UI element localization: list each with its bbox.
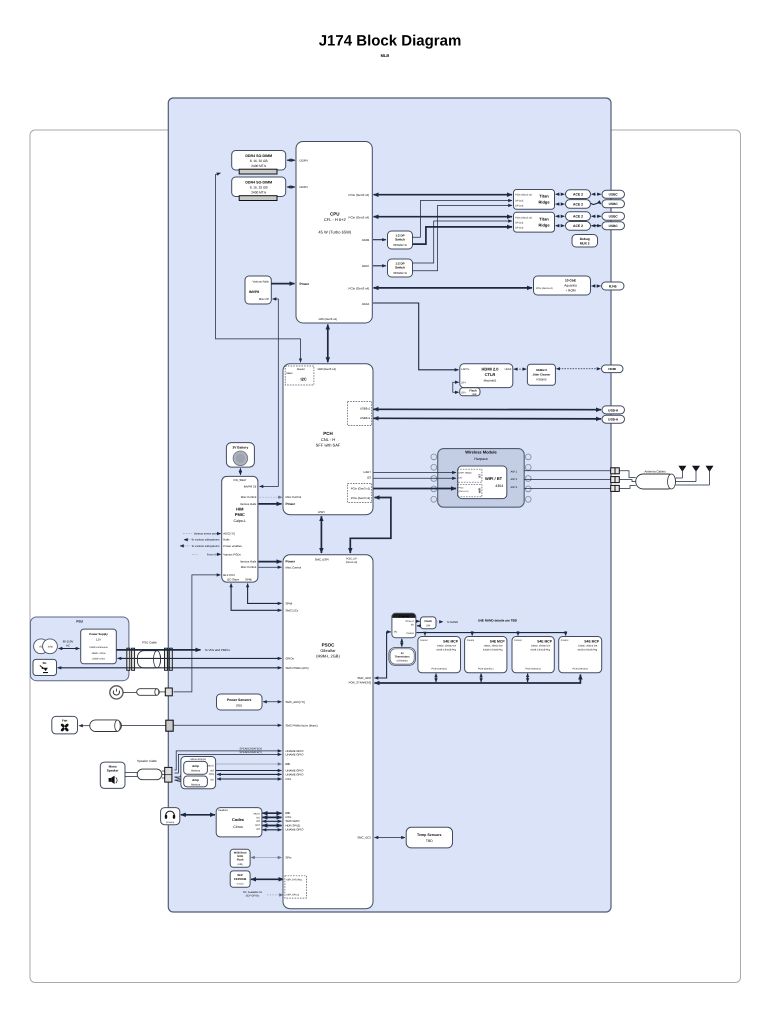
fan assembly xyxy=(52,716,173,734)
usb-c redriver ACE 2 #1 xyxy=(566,190,591,199)
svg-text:Harpace: Harpace xyxy=(474,457,488,461)
wire connector2 to cable xyxy=(619,480,635,482)
wire PCIe CPU to Titan Ridge 1 xyxy=(374,194,513,196)
svg-text:(3.5mm): (3.5mm) xyxy=(166,821,174,824)
usb-c redriver ACE 2 #2 xyxy=(566,200,591,209)
usb-c redriver ACE 2 #4 xyxy=(566,222,591,231)
usb-c port #3 xyxy=(602,212,625,220)
svg-text:DDR4 SO-DIMM: DDR4 SO-DIMM xyxy=(245,181,272,185)
wire ACE2#3 to USBC#3 xyxy=(592,215,602,217)
svg-text:S4E NAND details are TBD: S4E NAND details are TBD xyxy=(478,618,518,622)
power sensors xyxy=(217,694,263,710)
svg-text:CFL - H 6+2: CFL - H 6+2 xyxy=(324,217,347,222)
svg-text:8, 16, 32 GB: 8, 16, 32 GB xyxy=(250,159,268,163)
amplifier bank xyxy=(181,757,216,789)
wire PGDs from VRs xyxy=(192,553,198,555)
svg-text:UART 4Mbps: UART 4Mbps xyxy=(459,471,473,474)
svg-text:DP (x4): DP (x4) xyxy=(515,222,523,225)
PCIe bus PSOC to NANDs xyxy=(375,675,581,684)
thunderbolt controller Titan Ridge 2 xyxy=(514,212,555,232)
speaker cable xyxy=(125,759,172,782)
svg-text:CPU: CPU xyxy=(330,212,340,217)
svg-text:USBC: USBC xyxy=(609,193,619,197)
svg-text:Various sense points: Various sense points xyxy=(194,532,220,536)
svg-text:10 GbE: 10 GbE xyxy=(565,278,576,282)
svg-text:I2Cx: I2Cx xyxy=(286,777,292,781)
wire PMIC I2C-slave to PSOC xyxy=(231,584,281,611)
wire connector3 to cable xyxy=(619,486,635,489)
svg-text:I2C: I2C xyxy=(210,778,214,781)
svg-text:IMVP8: IMVP8 xyxy=(249,290,259,294)
wire switch1 DP out to Titan Ridge 2 (thick) xyxy=(413,227,513,244)
NAND S4E MCP 3 xyxy=(512,637,554,673)
svg-text:Fan: Fan xyxy=(62,718,68,722)
svg-text:128Gb, 256Gb Die: 128Gb, 256Gb Die xyxy=(578,645,598,648)
svg-text:Speaker Cable: Speaker Cable xyxy=(137,759,157,763)
svg-text:inlet: inlet xyxy=(48,645,53,648)
svg-text:Wireless Module: Wireless Module xyxy=(465,450,497,455)
wire switch2 DP out to Titan Ridge 2 xyxy=(413,221,513,263)
svg-text:BLFTCtrl: BLFTCtrl xyxy=(223,573,235,577)
svg-text:PDN: PDN xyxy=(209,773,214,776)
wire UART PCH to BT xyxy=(374,472,457,474)
svg-text:Slave: Slave xyxy=(286,372,293,375)
svg-text:PSOC: PSOC xyxy=(322,643,336,648)
svg-text:PCIe (Gen3 x4): PCIe (Gen3 x4) xyxy=(515,194,532,197)
control tap S4E 3 xyxy=(517,631,519,633)
svg-text:Various Rails: Various Rails xyxy=(253,280,270,284)
PCIe tap NAND1 xyxy=(435,674,437,683)
svg-text:To various subsystems: To various subsystems xyxy=(191,544,220,548)
svg-text:PS8409: PS8409 xyxy=(536,378,546,382)
svg-text:+ ROM: + ROM xyxy=(565,288,576,292)
wire NC dotted to SEP_SPI xyxy=(267,894,283,896)
wire SIL to PSOC xyxy=(58,667,282,669)
svg-text:I2S: I2S xyxy=(367,475,371,479)
wire NOR flash SPI to PSOC xyxy=(251,857,282,859)
svg-text:SMC PWMxTachx (4fans): SMC PWMxTachx (4fans) xyxy=(286,723,318,727)
svg-text:SFF with SAF: SFF with SAF xyxy=(316,442,341,447)
svg-text:SPI: SPI xyxy=(461,392,465,395)
svg-text:ESPI: ESPI xyxy=(318,510,325,514)
svg-text:SPMI: SPMI xyxy=(286,601,293,605)
power supply unit xyxy=(81,629,117,664)
svg-text:WIFI / BT: WIFI / BT xyxy=(485,476,503,481)
svg-text:Antenna Cables: Antenna Cables xyxy=(644,469,666,473)
PCH PCIe dashed box xyxy=(348,484,372,503)
svg-text:45 W (Turbo 65W): 45 W (Turbo 65W) xyxy=(318,230,351,235)
svg-text:SPEAKERSAFE(Y): SPEAKERSAFE(Y) xyxy=(240,751,263,754)
wire codec I2S to PSOC xyxy=(263,812,282,814)
svg-text:ADC[7:0]: ADC[7:0] xyxy=(223,532,235,536)
svg-text:SPIs: SPIs xyxy=(286,855,293,859)
thermistors xyxy=(389,648,416,666)
svg-text:Various Rails: Various Rails xyxy=(240,560,257,564)
control bus from Charlie to NANDs xyxy=(417,632,566,634)
svg-text:PCIe (Gen3 x4): PCIe (Gen3 x4) xyxy=(515,216,532,219)
wire DDR4 channel A xyxy=(287,159,295,161)
PCIe tap NAND2 xyxy=(480,674,482,683)
svg-text:Master: Master xyxy=(297,368,305,371)
svg-text:PCIe (Gen3x1): PCIe (Gen3x1) xyxy=(525,668,541,671)
wire PMIC SPMI to PSOC xyxy=(248,584,282,604)
svg-text:MCLK: MCLK xyxy=(208,765,215,768)
wire DDIC CPU to switch2 xyxy=(373,265,386,267)
svg-text:Control: Control xyxy=(561,639,569,642)
svg-text:Misc Control: Misc Control xyxy=(286,495,302,499)
svg-text:PCIe (Gen3 x4): PCIe (Gen3 x4) xyxy=(348,287,369,291)
svg-text:3633AETD: 3633AETD xyxy=(393,271,407,275)
svg-text:Ridge: Ridge xyxy=(538,200,550,205)
svg-text:UNAME GPIO: UNAME GPIO xyxy=(286,752,305,756)
svg-text:INT: INT xyxy=(256,828,260,831)
svg-text:HIM: HIM xyxy=(236,507,244,512)
svg-text:RJ45: RJ45 xyxy=(609,284,617,288)
svg-text:12V: 12V xyxy=(96,638,101,642)
antenna connector 2 xyxy=(611,477,620,483)
NAND S4E MCP 4 xyxy=(559,637,602,673)
svg-text:USB3x1: USB3x1 xyxy=(360,416,371,420)
svg-text:128Gb, 256Gb Die: 128Gb, 256Gb Die xyxy=(483,645,503,648)
USB-A port 1 xyxy=(602,406,625,414)
wire DMI CPU to PCH xyxy=(327,325,329,363)
svg-text:PCIe (Gen3x1): PCIe (Gen3x1) xyxy=(478,668,494,671)
svg-text:SEP_TATUP(x): SEP_TATUP(x) xyxy=(286,878,302,881)
svg-text:PCIe (Gen3 x4): PCIe (Gen3 x4) xyxy=(351,496,370,500)
svg-text:To VRs and PMICs: To VRs and PMICs xyxy=(205,648,231,652)
wire connector1 to cable xyxy=(619,471,635,478)
wire PCIe CPU to Titan Ridge 2 xyxy=(374,216,513,218)
svg-text:SPEAKERSAFE(X): SPEAKERSAFE(X) xyxy=(240,747,263,750)
wire PCIe Gen3x4 PCH to PSOC xyxy=(350,498,391,554)
mono speaker xyxy=(100,762,125,788)
svg-text:ANT2: ANT2 xyxy=(511,478,518,481)
DIMM slot 1 DDR4 SO-DIMM xyxy=(232,151,286,175)
wire DDR4 channel B xyxy=(287,186,295,188)
svg-text:MLB: MLB xyxy=(381,53,390,58)
wire DDIA CPU to HDMI controller xyxy=(373,303,459,370)
svg-text:AC: AC xyxy=(39,645,43,648)
svg-text:Calpe-L: Calpe-L xyxy=(234,519,247,523)
svg-text:64GB 0.5/4GB Pkg: 64GB 0.5/4GB Pkg xyxy=(578,649,598,652)
svg-text:Control: Control xyxy=(467,639,475,642)
audio codec Cirrus xyxy=(216,808,262,837)
wire jitter cleaner to HDMI port xyxy=(556,368,600,370)
wire PMIC misc control to PSOC xyxy=(259,566,282,568)
MLB board (blue) xyxy=(168,98,611,912)
wire 10GbE to RJ45 xyxy=(592,285,601,287)
svg-text:SEP GPIOs: SEP GPIOs xyxy=(246,895,260,898)
svg-text:DDIA: DDIA xyxy=(362,302,369,306)
svg-text:Misc Control: Misc Control xyxy=(241,565,257,569)
svg-text:SMC PWMs (4Ch): SMC PWMs (4Ch) xyxy=(286,666,309,670)
svg-text:S4E MCP: S4E MCP xyxy=(537,640,553,644)
svg-text:CNL - H: CNL - H xyxy=(321,437,335,442)
SIL safety box xyxy=(33,659,57,675)
svg-text:(H9M-L 2GB): (H9M-L 2GB) xyxy=(316,654,340,659)
svg-text:From VRs: From VRs xyxy=(207,552,220,556)
svg-text:INT: INT xyxy=(210,769,214,772)
svg-text:HDMI 2.0: HDMI 2.0 xyxy=(482,367,500,372)
svg-text:Misc Control: Misc Control xyxy=(286,566,302,570)
svg-text:AC: AC xyxy=(66,643,70,647)
DP switch 2 (DDIC) xyxy=(388,259,413,277)
svg-text:150W continuous: 150W continuous xyxy=(89,646,108,649)
wire PCIe PCH to WIFI xyxy=(374,488,457,490)
wire 12V to VRs and PMICs xyxy=(117,649,201,651)
svg-text:64GB 0.5/4GB Pkg: 64GB 0.5/4GB Pkg xyxy=(530,649,550,652)
svg-text:IMVP8 Ctl: IMVP8 Ctl xyxy=(244,484,257,488)
wire DDIB CPU to switch1 xyxy=(373,239,386,241)
svg-text:Ridge: Ridge xyxy=(538,222,550,227)
svg-text:UART: UART xyxy=(363,470,371,474)
wire PSU return to PSOC GPIOs xyxy=(118,657,282,659)
antenna 1 xyxy=(676,466,687,478)
svg-text:ACE 2: ACE 2 xyxy=(573,215,583,219)
svg-text:UNAME GPIO: UNAME GPIO xyxy=(286,828,305,832)
BT interface dashed box xyxy=(457,469,482,482)
svg-text:version: version xyxy=(237,882,245,885)
wire amp PDN from PSOC xyxy=(217,773,282,775)
svg-text:SPMI: SPMI xyxy=(245,578,252,582)
svg-text:DDIC: DDIC xyxy=(362,264,370,268)
PCH USB dashed box xyxy=(348,402,372,426)
svg-text:PSU: PSU xyxy=(76,620,83,624)
Debug MUX 2 xyxy=(572,235,598,248)
svg-text:Speaker: Speaker xyxy=(107,768,120,772)
svg-text:2400 MT/s: 2400 MT/s xyxy=(251,191,266,195)
wifi/bt chip 4364 xyxy=(458,466,507,499)
svg-text:PCIe (Gen3x1): PCIe (Gen3x1) xyxy=(432,668,448,671)
svg-text:DP (x4): DP (x4) xyxy=(515,227,523,230)
svg-text:Titan: Titan xyxy=(539,194,549,199)
svg-text:HDMI: HDMI xyxy=(608,367,616,371)
wire Charlie I2C to PSOC xyxy=(375,632,391,678)
NAND S4E MCP 1 xyxy=(418,637,461,673)
wire PMIC rails to PSOC power xyxy=(259,561,282,563)
svg-text:Various: Various xyxy=(191,782,201,786)
svg-text:Various Rails: Various Rails xyxy=(240,502,257,506)
wire amp MCLK/I2S to PSOC xyxy=(216,763,282,765)
wire power sensors to PSOC ADC xyxy=(263,701,282,703)
svg-text:DDR4: DDR4 xyxy=(300,185,308,189)
svg-text:2400 MT/s: 2400 MT/s xyxy=(251,164,266,168)
antenna connector 3 xyxy=(611,485,620,491)
HDMI port xyxy=(602,365,624,373)
svg-text:LSPCx: LSPCx xyxy=(461,368,470,371)
svg-text:INT: INT xyxy=(256,820,260,823)
wire codec gpio to PSOC xyxy=(263,820,282,822)
PCH U2 xyxy=(283,364,373,515)
wire AC inlet to power supply xyxy=(59,648,80,650)
wire PCIe CPU to 10GbE xyxy=(374,287,533,289)
wire PMIC power to PCH xyxy=(259,503,282,505)
SPI flash for HDMI controller xyxy=(460,388,480,396)
svg-text:Power Sensors: Power Sensors xyxy=(227,698,252,702)
wire ANT3 to connector xyxy=(524,487,610,489)
svg-text:J174 Block Diagram: J174 Block Diagram xyxy=(319,33,462,50)
wire PCH USB3 to USB-A 1 xyxy=(374,408,602,410)
svg-text:Headset: Headset xyxy=(218,809,228,812)
wire TR1 to ACE2 #2 xyxy=(556,203,565,205)
svg-text:I2C: I2C xyxy=(300,377,306,382)
svg-text:Switch: Switch xyxy=(395,266,405,270)
SEP EEPROM xyxy=(230,871,250,887)
wire ACE2#2 to USBC#2 (curved) xyxy=(591,203,601,204)
wire amp I2C to PSOC xyxy=(217,778,282,780)
PSOC Gibraltar (T2) xyxy=(283,555,373,909)
SPI flash for Charlie xyxy=(420,617,436,629)
svg-text:USB-A: USB-A xyxy=(608,408,619,412)
svg-text:SMC_I2C2: SMC_I2C2 xyxy=(357,835,371,839)
svg-text:I2S: I2S xyxy=(459,477,463,480)
svg-text:Flash: Flash xyxy=(469,388,477,392)
wire flash to NAND note xyxy=(436,621,443,623)
10 GbE controller Aquantia xyxy=(534,276,591,295)
wire ESPI PCH to PSOC xyxy=(320,516,322,553)
svg-text:EEPROM: EEPROM xyxy=(234,877,247,881)
svg-text:3V Battery: 3V Battery xyxy=(233,445,249,449)
svg-text:185W <10ms: 185W <10ms xyxy=(91,652,106,655)
module screw holes right xyxy=(525,454,531,460)
CPU U1 xyxy=(296,142,372,324)
svg-text:PMIC: PMIC xyxy=(235,512,245,517)
wire Charlie to thermistors xyxy=(401,639,403,647)
svg-text:Switch: Switch xyxy=(395,238,405,242)
ethernet port RJ45 xyxy=(602,282,625,290)
svg-text:PCH: PCH xyxy=(323,431,333,436)
svg-text:Thermistors: Thermistors xyxy=(395,655,411,658)
svg-text:VIN_SBAT: VIN_SBAT xyxy=(233,478,247,482)
svg-text:GPIOs: GPIOs xyxy=(286,656,295,660)
wire speakersafe lines to PSOC xyxy=(175,751,282,770)
wire headphone to codec xyxy=(181,814,215,816)
wire codec I2C to PSOC xyxy=(263,816,282,818)
wire temp sensors to PSOC xyxy=(375,837,406,839)
AC inlet xyxy=(34,639,49,654)
svg-text:HDMI2.0: HDMI2.0 xyxy=(536,368,547,372)
wire switch2 DP out to Titan Ridge 1 xyxy=(413,205,513,270)
svg-text:Rails: Rails xyxy=(223,538,230,542)
wire power enables to subsystems xyxy=(184,545,190,547)
antenna connector 1 xyxy=(611,468,620,474)
svg-text:Titan: Titan xyxy=(539,216,549,221)
svg-text:USBC: USBC xyxy=(609,224,619,228)
svg-text:I2C-Slave: I2C-Slave xyxy=(227,578,240,582)
svg-text:Control: Control xyxy=(406,632,414,635)
svg-text:PCIe (Gen3x1): PCIe (Gen3x1) xyxy=(573,668,589,671)
wire switch1 DP out to Titan Ridge 1 xyxy=(413,201,513,238)
svg-text:S4E MCP: S4E MCP xyxy=(490,640,506,644)
wire HDMI ctlr SPI loop to flash xyxy=(453,382,459,392)
svg-text:Charlie: Charlie xyxy=(399,614,410,618)
svg-text:USBC: USBC xyxy=(609,202,619,206)
usb-c redriver ACE 2 #3 xyxy=(566,212,591,221)
svg-text:Various: Various xyxy=(191,769,201,773)
wire ANT1 to connector xyxy=(524,470,610,472)
wire SPD SMBus from PCH I2C to DIMMs xyxy=(216,173,301,362)
svg-text:Various PGDs: Various PGDs xyxy=(223,552,241,556)
HDMI 2.0 controller U-HDMI xyxy=(460,364,513,388)
svg-text:DDR4: DDR4 xyxy=(300,158,308,162)
svg-text:MCLK: MCLK xyxy=(254,812,261,815)
svg-text:Power Supply: Power Supply xyxy=(89,632,108,636)
svg-text:4364: 4364 xyxy=(495,484,503,488)
HDMI jitter cleaner PS8409 xyxy=(527,364,555,385)
wire PCH USB3 to USB-A 2 xyxy=(374,417,602,420)
svg-text:Cirrus: Cirrus xyxy=(233,825,243,829)
svg-text:BT: BT xyxy=(478,474,481,478)
svg-text:DDR4 SO-DIMM: DDR4 SO-DIMM xyxy=(245,154,272,158)
wire codec spi to PSOC xyxy=(263,825,282,827)
svg-text:SMC_ADC[7:0]: SMC_ADC[7:0] xyxy=(286,700,305,704)
control tap S4E 4 xyxy=(564,631,566,633)
svg-text:PCIe (Gen3 x4): PCIe (Gen3 x4) xyxy=(348,216,369,220)
wire HDMI ctlr to jitter cleaner xyxy=(514,368,527,370)
svg-text:Control: Control xyxy=(514,639,522,642)
svg-text:Gibraltar: Gibraltar xyxy=(320,648,336,653)
svg-text:PCIe (Gen3 x1): PCIe (Gen3 x1) xyxy=(351,487,370,491)
svg-text:128Gb, 256Gb Die: 128Gb, 256Gb Die xyxy=(437,645,457,648)
svg-text:SMC_ESPI: SMC_ESPI xyxy=(315,558,329,562)
svg-text:USB-A: USB-A xyxy=(608,418,619,422)
svg-text:DDIB: DDIB xyxy=(362,238,369,242)
3V battery xyxy=(226,443,254,468)
voltage regulator IMVP8 xyxy=(245,276,271,304)
svg-text:DMI (Gen3 x4): DMI (Gen3 x4) xyxy=(319,317,337,321)
svg-text:Power: Power xyxy=(286,560,296,564)
PCH I2C master/slave dashed box xyxy=(285,366,314,385)
svg-text:Flash: Flash xyxy=(237,859,244,862)
thunderbolt controller Titan Ridge 1 xyxy=(514,190,555,210)
power button xyxy=(110,686,173,699)
PSU cable connector xyxy=(127,641,173,671)
temp sensors xyxy=(406,827,452,848)
svg-text:HDMI: HDMI xyxy=(505,368,512,371)
svg-text:SEP_SPI (x): SEP_SPI (x) xyxy=(286,894,299,897)
wire TR2 to ACE2 #3 xyxy=(556,215,565,217)
svg-text:ANT1: ANT1 xyxy=(511,470,518,473)
svg-text:Misc Ctl: Misc Ctl xyxy=(259,297,269,301)
wire Charlie to flash xyxy=(417,620,420,622)
svg-text:SPI: SPI xyxy=(426,624,430,627)
svg-text:DP (x4): DP (x4) xyxy=(515,204,523,207)
wireless module Harpace xyxy=(431,449,531,508)
svg-text:Power: Power xyxy=(286,502,296,506)
svg-text:To various subsystems: To various subsystems xyxy=(191,538,220,542)
svg-text:DMI (Gen3 x4): DMI (Gen3 x4) xyxy=(318,367,336,371)
svg-text:SPI: SPI xyxy=(461,381,465,384)
PMIC HIM Calpe-L xyxy=(222,476,258,582)
svg-text:ACE 2: ACE 2 xyxy=(573,193,583,197)
svg-text:MUX 2: MUX 2 xyxy=(580,241,590,245)
svg-text:128Gb, 256Gb Die: 128Gb, 256Gb Die xyxy=(531,645,551,648)
svg-text:(AIB): (AIB) xyxy=(237,863,242,866)
headphone jack xyxy=(161,808,180,825)
WIFI interface dashed box xyxy=(457,484,482,497)
svg-text:(Gen3 x4): (Gen3 x4) xyxy=(346,561,358,564)
svg-text:TBD: TBD xyxy=(426,839,433,843)
wire TR2 to ACE2 #4 xyxy=(556,225,565,227)
control tap S4E 1 xyxy=(424,633,426,636)
svg-text:(Gen1 x1): (Gen1 x1) xyxy=(459,490,469,493)
wire sense points into PMIC xyxy=(183,533,192,535)
svg-text:S4E MCP: S4E MCP xyxy=(584,640,600,644)
svg-text:PSU Cable: PSU Cable xyxy=(142,641,157,645)
wire amp INT to PSOC xyxy=(216,770,282,772)
svg-text:PCIe x1: PCIe x1 xyxy=(406,620,415,623)
svg-text:Power enables: Power enables xyxy=(223,544,242,548)
